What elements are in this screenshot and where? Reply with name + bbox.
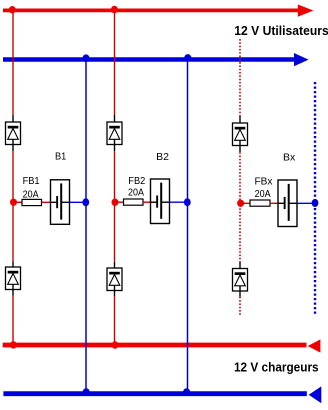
- diode D2b (bottom, branch2): [107, 262, 122, 297]
- svg-text:FBx: FBx: [255, 176, 273, 187]
- wire: red dot to fuse FBx: [241, 202, 250, 204]
- svg-text:FB2: FB2: [128, 176, 145, 187]
- wire: top blue bus: [3, 57, 295, 62]
- arrowhead: top red bus right: [298, 5, 314, 17]
- wire: branch3 red dotted vertical middle: [239, 152, 241, 262]
- junction dot: branch1 on top red bus: [9, 6, 16, 13]
- diode D1b (bottom, branch1): [6, 261, 21, 296]
- svg-text:20A: 20A: [23, 189, 39, 200]
- junction dot: branch2 on bottom red bus: [112, 341, 119, 348]
- svg-text:12 V chargeurs: 12 V chargeurs: [234, 360, 319, 375]
- wire: branch2 red vertical segment bottom: [114, 296, 116, 345]
- wire: top red bus (+12V utilisateurs): [3, 8, 300, 12]
- wire: branch1 red vertical segment middle: [12, 151, 14, 261]
- wire: fuse FB1 to battery B1: [42, 201, 51, 203]
- junction dot: branch1 battery row red: [10, 199, 17, 206]
- wire: battery B1 to blue vertical: [70, 201, 86, 203]
- junction dot: branch2 battery row blue: [184, 198, 191, 206]
- junction dot: branch3 battery row red: [237, 200, 244, 207]
- junction dot: branch2 on bottom blue bus: [183, 388, 190, 396]
- wire: branch2 red vertical segment top: [114, 10, 116, 114]
- fuse FBx 20A: [250, 200, 270, 206]
- junction dot: branch1 on bottom red bus: [10, 341, 17, 348]
- battery B2: [151, 179, 170, 224]
- wire: battery Bx to blue vertical: [297, 202, 315, 204]
- wire: bottom red bus (12V chargeurs): [3, 343, 307, 348]
- wire: red dot to fuse FB2: [115, 201, 124, 203]
- wire: branch1 red vertical segment top: [12, 10, 14, 114]
- battery B1: [51, 180, 70, 225]
- battery Bx: [278, 180, 297, 227]
- diode D2a (top, branch2): [107, 115, 122, 151]
- wire: battery B2 to blue vertical: [170, 201, 188, 203]
- diode D3a (top, branch3): [233, 116, 248, 152]
- wire: branch3 red dotted vertical bottom: [239, 297, 241, 316]
- svg-text:FB1: FB1: [23, 176, 40, 187]
- wire: branch3 red dotted vertical top: [239, 39, 241, 116]
- junction dot: branch1 battery row blue: [82, 198, 89, 206]
- svg-text:B1: B1: [55, 151, 66, 163]
- wire: branch1 red vertical segment bottom: [12, 296, 14, 345]
- svg-text:B2: B2: [156, 151, 169, 163]
- junction dot: branch1 on top blue bus: [82, 54, 89, 62]
- svg-text:12 V Utilisateurs: 12 V Utilisateurs: [234, 23, 328, 38]
- wire: branch2 blue vertical: [187, 60, 189, 393]
- svg-text:20A: 20A: [255, 189, 271, 200]
- wire: fuse FB2 to battery B2: [143, 201, 151, 203]
- svg-text:Bx: Bx: [283, 151, 296, 163]
- wire: branch2 red vertical segment middle: [114, 151, 116, 262]
- arrowhead: top blue bus right: [294, 53, 309, 66]
- wire: branch3 blue dotted vertical: [314, 82, 316, 314]
- fuse FB2 20A: [124, 199, 144, 205]
- fuse FB1 20A: [22, 199, 42, 205]
- junction dot: branch2 battery row red: [112, 199, 119, 206]
- junction dot: branch2 on top red bus: [111, 6, 118, 13]
- wire: branch1 blue vertical: [85, 60, 87, 393]
- arrowhead: bottom red bus (pointing left): [308, 339, 321, 352]
- junction dot: branch2 on top blue bus: [184, 54, 191, 62]
- svg-text:20A: 20A: [128, 188, 144, 199]
- wire: red dot to fuse FB1: [14, 201, 23, 203]
- junction dot: branch3 battery row blue: [312, 199, 319, 207]
- wire: bottom blue bus: [3, 391, 306, 396]
- junction dot: branch1 on bottom blue bus: [83, 388, 90, 396]
- arrowhead: bottom blue bus (pointing left): [309, 386, 322, 403]
- diode D3b (bottom, branch3): [233, 262, 248, 297]
- diode D1a (top, branch1): [6, 115, 21, 151]
- wire: fuse FBx to battery Bx: [270, 202, 278, 204]
